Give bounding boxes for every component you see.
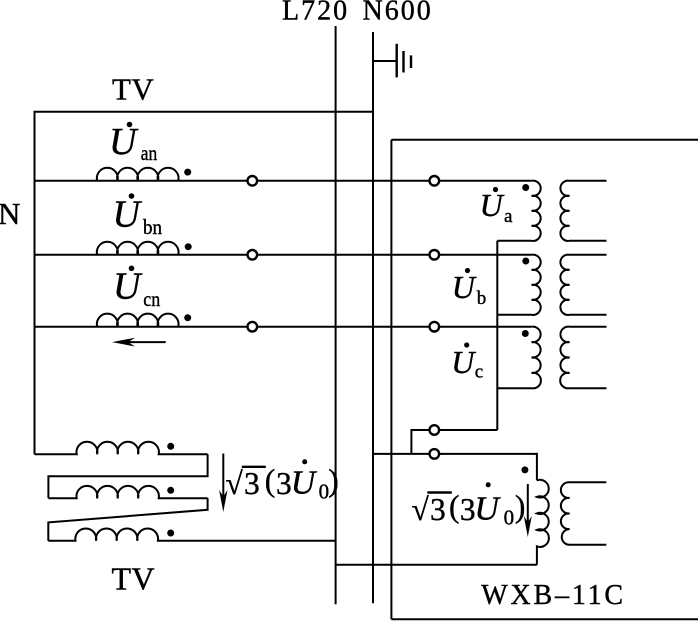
winding Ucn coil	[97, 314, 179, 327]
terminal circle box n1	[430, 425, 440, 435]
svg-text:0: 0	[504, 506, 514, 530]
svg-text:U: U	[291, 465, 318, 502]
winding Uan coil	[97, 168, 179, 181]
transformer U_b primary coil	[497, 255, 540, 315]
svg-text:N: N	[0, 196, 20, 231]
wire TV box top	[35, 112, 374, 454]
label sqrt3(3U0) left	[226, 459, 339, 503]
wire neutral collector	[496, 241, 498, 430]
svg-text:U: U	[451, 344, 476, 380]
svg-text:3: 3	[460, 492, 476, 527]
svg-text:U: U	[452, 269, 477, 305]
svg-text:U: U	[113, 266, 143, 308]
polarity dot Uan	[184, 169, 191, 176]
transformer 3U0 primary coil	[537, 480, 549, 565]
box WXB-11C	[390, 140, 392, 619]
bus N600 wire	[372, 32, 374, 603]
arrow 3U0 box	[524, 484, 532, 537]
svg-text:3: 3	[276, 466, 292, 501]
svg-text:U: U	[474, 491, 501, 528]
svg-text:3: 3	[430, 492, 446, 527]
polarity dot delta winding 1	[167, 443, 174, 450]
winding Ubn coil	[97, 242, 179, 255]
arrow phase c current	[112, 338, 166, 347]
transformer U_a secondary coil	[560, 181, 606, 241]
wire circle1 link	[411, 430, 497, 454]
polarity dot Ucn	[184, 314, 191, 321]
svg-text:WXB–11C: WXB–11C	[481, 580, 626, 611]
label sqrt3(3U0) box	[412, 482, 526, 529]
svg-text:(: (	[449, 489, 460, 524]
polarity dot delta winding 3	[167, 530, 174, 537]
wire delta link 1	[48, 454, 207, 498]
svg-text:√: √	[226, 466, 244, 501]
terminal circle box a	[430, 176, 440, 186]
ground	[373, 44, 411, 78]
terminal circle TV b	[248, 250, 258, 260]
svg-text:cn: cn	[143, 287, 160, 311]
svg-text:U: U	[109, 121, 139, 163]
svg-text:b: b	[477, 288, 487, 309]
transformer U_b secondary coil	[560, 255, 606, 315]
polarity dot U_c	[522, 330, 529, 337]
terminal circle box b	[430, 250, 440, 260]
wire phase b	[35, 254, 532, 256]
wire phase a	[35, 180, 532, 182]
wire 3U0 return to L720	[336, 564, 537, 566]
svg-text:an: an	[141, 141, 158, 165]
transformer U_c secondary coil	[560, 327, 606, 389]
svg-text:3: 3	[244, 466, 260, 501]
label U_c	[451, 342, 483, 382]
svg-text:U: U	[480, 187, 505, 223]
open-delta winding 1	[35, 442, 208, 454]
arrow 3U0 left	[219, 454, 227, 513]
open-delta winding 3	[48, 528, 335, 540]
svg-text:): )	[515, 489, 526, 524]
polarity dot Ubn	[185, 243, 192, 250]
svg-text:N600: N600	[363, 0, 433, 27]
terminal circle TV a	[248, 176, 258, 186]
wire N600 to transformer 3U0	[373, 454, 537, 481]
polarity dot delta winding 2	[167, 487, 174, 494]
polarity dot U_a	[522, 184, 529, 191]
terminal circle box c	[430, 322, 440, 332]
wire phase c	[35, 326, 532, 328]
svg-text:TV: TV	[112, 561, 156, 597]
polarity dot 3U0	[521, 466, 528, 473]
label U_b	[452, 268, 486, 309]
terminal circle box n2	[430, 449, 440, 459]
label U_cn	[113, 266, 161, 312]
svg-text:U: U	[113, 193, 143, 235]
transformer 3U0 secondary coil	[561, 482, 606, 545]
svg-text:√: √	[412, 492, 430, 527]
label U_a	[480, 187, 513, 227]
transformer U_a primary coil	[497, 181, 540, 241]
label U_bn	[113, 193, 163, 239]
svg-text:(: (	[265, 463, 276, 498]
open-delta winding 2	[48, 486, 207, 498]
bus L720 wire	[335, 26, 337, 604]
svg-text:c: c	[475, 362, 483, 383]
svg-text:L720: L720	[282, 0, 349, 27]
svg-text:): )	[328, 463, 339, 498]
svg-text:TV: TV	[112, 72, 154, 107]
polarity dot U_b	[522, 258, 529, 265]
terminal circle TV c	[248, 322, 258, 332]
transformer U_c primary coil	[497, 327, 541, 389]
svg-text:a: a	[504, 206, 513, 227]
svg-text:bn: bn	[143, 215, 162, 239]
label U_an	[109, 121, 158, 165]
wire delta link 2 slanted	[48, 498, 207, 540]
